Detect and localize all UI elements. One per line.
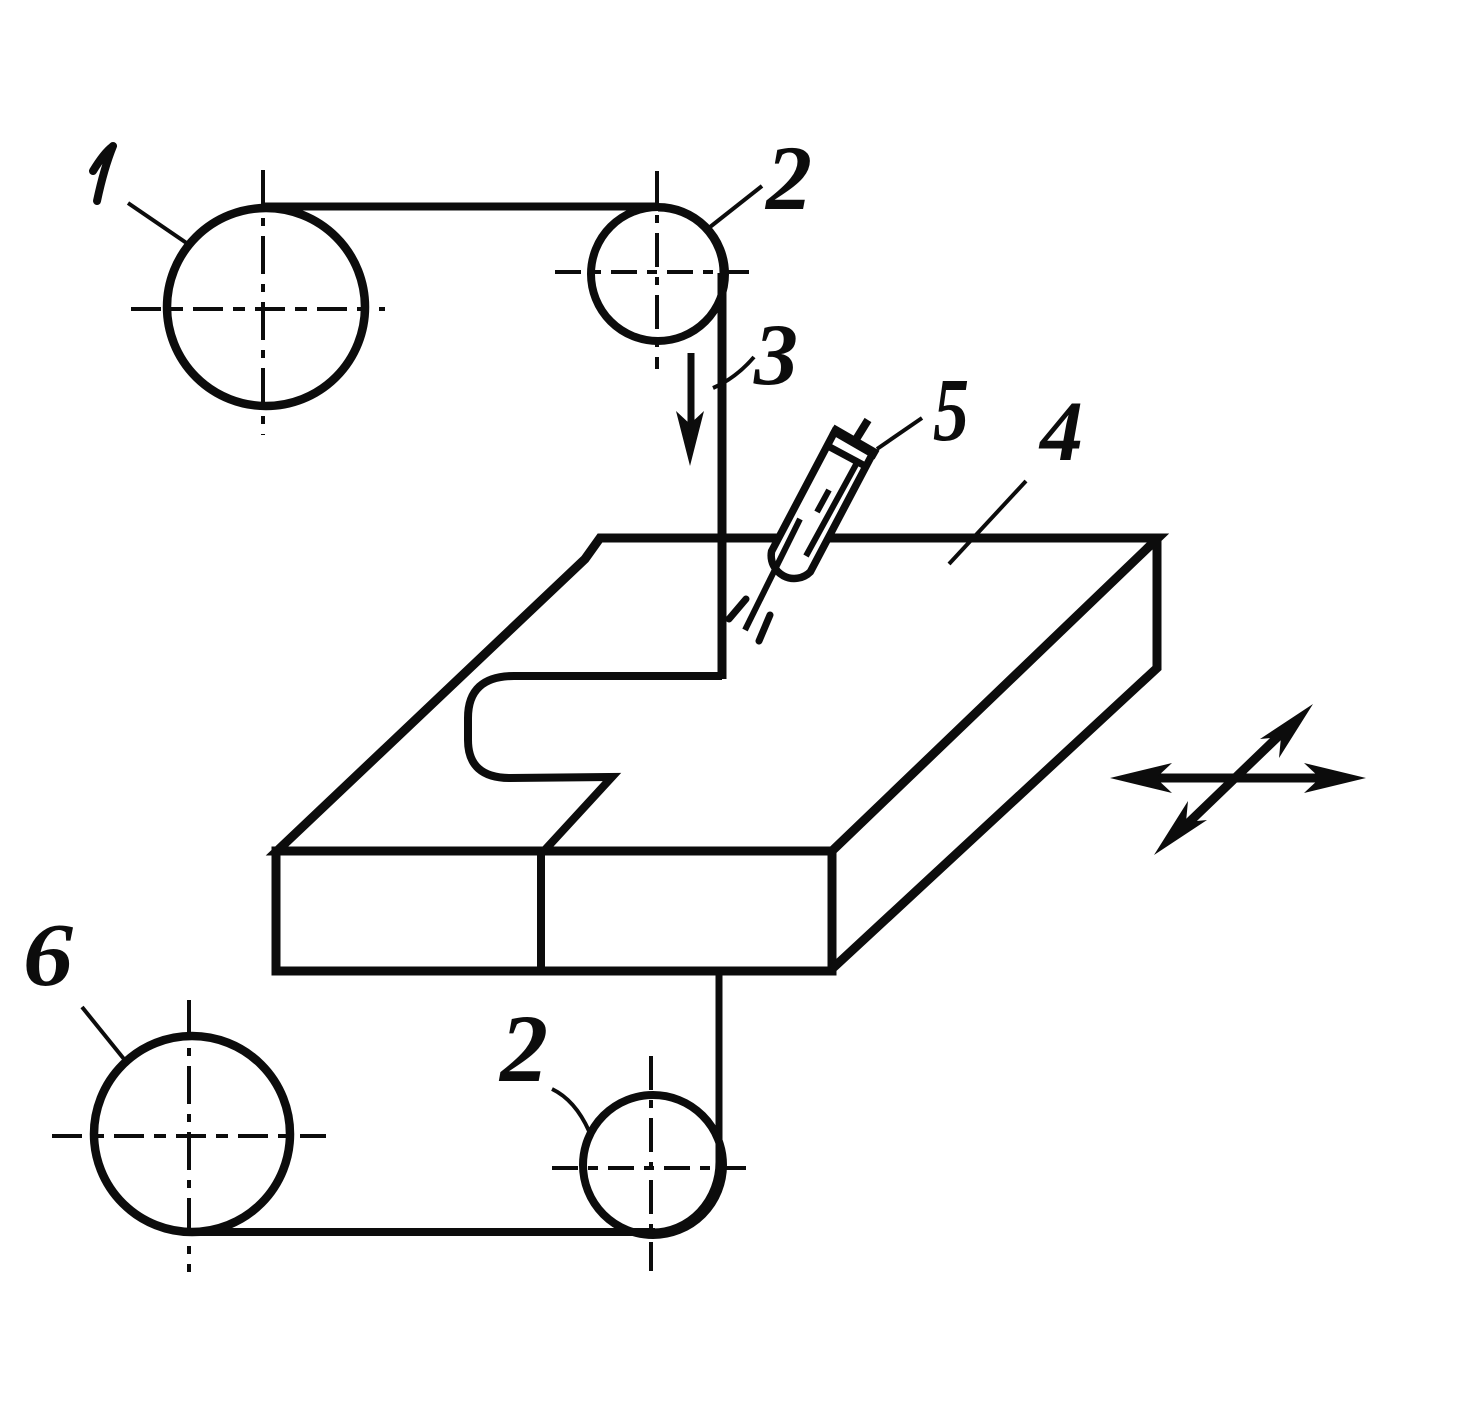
spool 6 centerline vertical: [187, 1000, 191, 1272]
spool 6: [94, 1036, 290, 1232]
pulley 2 bottom: [583, 1095, 723, 1235]
label 3 leader: [713, 357, 754, 388]
pulley 2 top centerline horizontal: [555, 270, 751, 274]
nozzle 5 stub above cap: [855, 420, 868, 441]
pulley 2 top centerline vertical: [655, 171, 659, 369]
nozzle 5 band line: [826, 445, 867, 467]
nozzle 5 jet line: [745, 519, 800, 630]
label 2 bottom leader: [552, 1089, 589, 1131]
label 6 leader: [82, 1007, 128, 1064]
pulley 2 top: [591, 207, 725, 341]
wire 3 lower vertical: [718, 273, 727, 679]
label 1 leader: [128, 203, 188, 244]
wire feed arrow: [688, 353, 695, 437]
svg-text:2: 2: [764, 127, 812, 229]
spool 1: [167, 208, 365, 406]
nozzle spray mark right: [759, 615, 770, 641]
wire 3 top span: [263, 203, 659, 211]
kerf path on top face: [468, 676, 722, 852]
wire bottom span: [190, 1228, 655, 1236]
XY motion arrow horizontal: [1110, 763, 1366, 793]
pulley 2 bottom centerline vertical: [649, 1056, 653, 1271]
svg-text:4: 4: [1038, 383, 1083, 479]
nozzle 5 inner axis dash: [817, 490, 829, 512]
workpiece 4 right end face: [832, 538, 1157, 969]
nozzle 5 body: [745, 420, 877, 630]
label 5 leader: [877, 418, 922, 449]
workpiece 4 front face: [276, 851, 832, 971]
workpiece 4 top face: [277, 538, 1158, 851]
kerf on front face: [537, 853, 545, 971]
svg-text:5: 5: [933, 361, 969, 460]
spool 1 centerline horizontal: [131, 307, 385, 311]
svg-text:2: 2: [498, 995, 548, 1102]
pulley 2 bottom centerline horizontal: [552, 1166, 756, 1170]
label 2 top leader: [710, 186, 762, 227]
spool 1 centerline vertical: [261, 170, 265, 435]
nozzle spray mark left: [729, 599, 746, 619]
XY motion arrow diagonal: [1154, 704, 1313, 855]
svg-text:3: 3: [753, 307, 798, 404]
nozzle 5 cap line: [832, 429, 877, 455]
svg-text:6: 6: [23, 906, 73, 1005]
label 4 leader: [949, 481, 1026, 564]
wire below workpiece: [653, 975, 719, 1232]
nozzle 5 inner right line: [806, 459, 859, 556]
label 1: [93, 146, 113, 201]
spool 6 centerline horizontal: [52, 1134, 326, 1138]
wire 3 wrap around pulley 2 and vertical drop: [658, 208, 723, 400]
